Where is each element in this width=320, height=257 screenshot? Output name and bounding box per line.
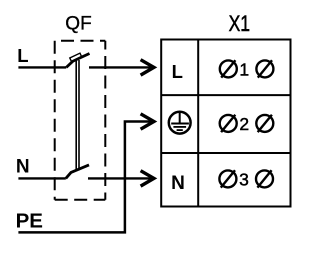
arrow into X1:2 — [141, 114, 154, 129]
arrow into X1:3 — [141, 171, 154, 186]
X1 terminal 3 screw symbols — [219, 170, 273, 187]
X1 terminal 1 screw symbols — [220, 60, 274, 77]
svg-text:2: 2 — [239, 114, 249, 134]
wire PE with riser to X1 terminal 2 — [18, 122, 152, 233]
breaker QF mechanical linkage (double line) — [76, 60, 79, 171]
svg-text:PE: PE — [16, 210, 43, 233]
svg-text:X1: X1 — [229, 12, 250, 37]
breaker QF element rectangle on blade — [70, 53, 82, 61]
wire N input — [18, 177, 65, 179]
X1 row2 protective earth symbol — [169, 112, 191, 134]
svg-text:N: N — [16, 157, 30, 178]
wire L to X1 terminal 1 — [89, 66, 153, 68]
breaker QF pole 1 contact blade — [66, 54, 89, 68]
terminal block X1 row divider 1 — [161, 94, 290, 96]
circuit breaker QF dashed enclosure — [55, 41, 106, 200]
svg-text:1: 1 — [239, 60, 249, 80]
terminal block X1 outline — [161, 40, 290, 207]
svg-text:N: N — [171, 173, 185, 194]
wire N to X1 terminal 3 — [88, 177, 153, 179]
arrow into X1:1 — [141, 60, 154, 75]
wire L input — [18, 66, 66, 68]
terminal block X1 row divider 2 — [161, 152, 290, 154]
svg-text:L: L — [172, 61, 183, 82]
svg-text:QF: QF — [65, 14, 91, 35]
svg-text:L: L — [17, 45, 28, 66]
svg-text:3: 3 — [239, 170, 249, 190]
X1 terminal 2 screw symbols — [220, 115, 274, 132]
breaker QF pole 2 contact blade — [66, 165, 89, 179]
terminal block X1 label column divider — [197, 40, 199, 207]
